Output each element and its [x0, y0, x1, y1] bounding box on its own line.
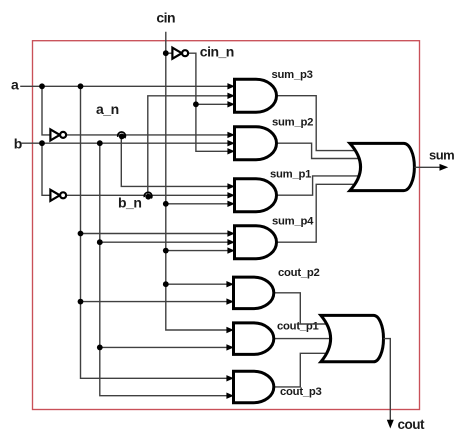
wire cout_p2 output to OR U9 input1: [274, 293, 327, 324]
wire b_n vertical branch to sum_p3 input2: [148, 96, 228, 196]
and-gate cout_p2 U5: [226, 277, 273, 309]
svg-text:b_n: b_n: [118, 194, 141, 210]
label cout: [398, 417, 426, 432]
svg-text:sum_p3: sum_p3: [272, 69, 313, 81]
label sum_p1: [270, 169, 311, 181]
wire net b_n (inverter U2 output run to sum_p1 input2): [66, 194, 228, 196]
svg-text:cout: cout: [398, 417, 426, 432]
inverter U1 a_n (triangle + bubble): [50, 129, 66, 140]
wire net cin_n (inverter U3 output, vertical rail, to sum_p2 input3): [187, 53, 228, 151]
junction dot a to cout_p2: [78, 299, 84, 305]
border frame (red boundary box): [33, 41, 420, 410]
junction dot a/inverter tap: [39, 83, 45, 89]
wire sum_p3 output to OR U8 input1: [277, 96, 357, 151]
label cin_n: [200, 44, 234, 60]
wire cout_p1 output to OR U9 input2: [274, 338, 331, 340]
label sum: [429, 148, 454, 163]
junction dot a to sum_p4: [78, 231, 84, 237]
wire b vertical rail: [100, 143, 228, 396]
label a_n: [96, 101, 119, 117]
svg-text:cin: cin: [156, 10, 175, 26]
or-gate U9 cout (3-input): [321, 315, 384, 361]
svg-text:a_n: a_n: [96, 101, 119, 117]
junction dot cin/inverter tap: [163, 50, 169, 56]
junction curl a_n branch: [118, 132, 126, 139]
wire a_n vertical branch to sum_p1 input1: [121, 135, 228, 187]
label cout_p1: [277, 321, 319, 333]
wire net a_n (inverter U1 output run to sum_p2 input1): [66, 134, 228, 136]
wire a vertical rail: [81, 86, 229, 378]
wire a branch to sum_p4 input1: [81, 233, 229, 235]
wire net a (horizontal input run): [20, 85, 228, 87]
junction dot cin to sum_p4: [163, 248, 169, 254]
svg-text:cout_p2: cout_p2: [278, 267, 320, 279]
wire b to inverter U2 input: [42, 143, 50, 195]
wire b branch to cout_p1 input2: [100, 346, 228, 348]
wire cin branch to cout_p2 input1: [166, 283, 228, 285]
and-gate sum_p3 U1: [227, 79, 276, 112]
inverter U2 b_n (triangle + bubble): [50, 190, 66, 201]
label cout_p3: [280, 386, 322, 398]
junction dot cin to sum_p1: [163, 201, 169, 207]
svg-text:cout_p3: cout_p3: [280, 386, 322, 398]
wire cout output with arrowhead: [384, 339, 394, 429]
svg-text:sum_p4: sum_p4: [272, 216, 314, 228]
wire net cin vertical rail: [166, 32, 228, 330]
svg-text:sum: sum: [429, 148, 454, 163]
wire sum_p4 output to OR U8 input4: [277, 184, 357, 242]
wire cin branch to sum_p1 input3: [166, 203, 228, 205]
svg-text:sum_p1: sum_p1: [270, 169, 311, 181]
label b_n: [118, 194, 141, 210]
wire sum output with arrowhead: [414, 164, 448, 171]
wire a to inverter U1 input: [42, 86, 50, 135]
svg-text:a: a: [11, 77, 19, 93]
wire a branch to cout_p2 input2: [81, 301, 229, 303]
label cin: [156, 10, 175, 26]
svg-text:cout_p1: cout_p1: [277, 321, 319, 333]
junction dot cin to cout_p2: [163, 281, 169, 287]
junction dot a rail: [78, 83, 84, 89]
wire net b (horizontal input run): [21, 142, 228, 144]
junction dot b to cout_p1: [97, 345, 103, 351]
label sum_p2: [272, 117, 313, 129]
wire cin_n branch to sum_p3 input3: [196, 103, 228, 105]
junction dot b rail: [97, 140, 103, 146]
and-gate sum_p4 U4: [227, 226, 276, 259]
label a: [11, 77, 19, 93]
wire sum_p1 output to OR U8 input3: [277, 176, 361, 195]
wire sum_p2 output to OR U8 input2: [277, 143, 361, 158]
or-gate U8 sum (4-input): [350, 143, 414, 190]
junction dot b to sum_p4: [97, 239, 103, 245]
svg-text:b: b: [14, 136, 22, 152]
label b: [14, 136, 22, 152]
wire cin to inverter U3 input: [166, 52, 173, 54]
label cout_p2: [278, 267, 320, 279]
and-gate sum_p1 U3: [227, 179, 276, 212]
svg-text:cin_n: cin_n: [200, 44, 234, 60]
label sum_p4: [272, 216, 314, 228]
and-gate cout_p1 U6: [226, 323, 273, 355]
inverter U3 cin_n (triangle + bubble): [172, 48, 188, 59]
junction dot cin_n to sum_p3: [193, 101, 199, 107]
wire cout_p3 output to OR U9 input3: [274, 353, 327, 387]
wire cin branch to sum_p4 input3: [166, 250, 228, 252]
and-gate sum_p2 U2: [227, 127, 276, 160]
junction dot b/inverter tap: [39, 140, 45, 146]
wire b branch to sum_p4 input2: [100, 241, 228, 243]
and-gate cout_p3 U7: [226, 371, 273, 403]
junction curl b_n branch: [144, 192, 152, 199]
label sum_p3: [272, 69, 313, 81]
svg-text:sum_p2: sum_p2: [272, 117, 313, 129]
